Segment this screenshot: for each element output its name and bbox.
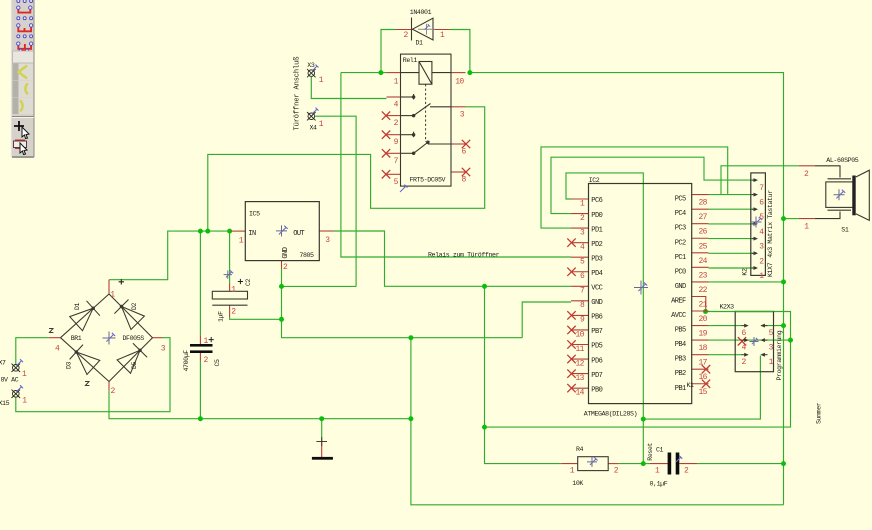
svg-text:15: 15 [699,388,708,397]
label BR1 tilde2 [85,382,89,386]
wire PC2 keypad row 3 [709,238,754,240]
svg-text:PB1: PB1 [675,385,686,393]
K2(3) pin 6 arrow [742,324,749,328]
wire speaker pin 2 feed [721,166,799,195]
pin S1.2 [799,165,815,167]
wire relay pin 3 loop to DC rail [208,107,485,231]
pin BR1.2 [108,382,110,391]
origin D1 [425,24,431,29]
svg-text:23: 23 [699,271,708,280]
node K2(3) pin 3 VCC junction [788,338,793,343]
svg-text:IC2: IC2 [589,177,600,184]
speaker membrane bar [852,176,855,216]
node GND pin 22 junction [781,279,786,284]
node GND branch junction [408,335,413,340]
wire GND vertical to rail [411,338,784,505]
pin R4.2 [608,463,618,465]
svg-text:PC0: PC0 [675,268,686,276]
svg-text:1N4001: 1N4001 [410,9,432,16]
svg-text:PC2: PC2 [675,239,686,247]
pin IC5.OUT [319,230,333,232]
svg-text:FRT5-DC05V: FRT5-DC05V [410,177,446,184]
pin BR1.4 [49,337,61,339]
node IC5 GND junction [279,284,284,289]
svg-text:4700µF: 4700µF [183,350,190,372]
svg-text:Programmierung: Programmierung [776,330,783,380]
node reset RC junction [641,461,646,466]
pin Rel1.8 [451,171,466,173]
origin Rel1 [400,185,407,192]
node relay pin 10 junction [467,70,472,75]
wire IC2 pin 22 GND [709,281,784,283]
origin IC5 [276,225,288,236]
no-connect relay pin 2 [382,111,390,119]
capacitor C2 [212,291,247,305]
svg-text:20: 20 [699,315,708,324]
svg-text:D1: D1 [74,302,81,310]
svg-text:12: 12 [576,359,585,368]
svg-text:10K: 10K [572,480,583,487]
pin S1.1 [799,218,815,220]
svg-text:11: 11 [576,345,585,354]
no-connect IC2 pin 15 [702,380,710,388]
pin IC2.17 [692,354,709,356]
node C2 minus junction [279,317,284,322]
origin K2 keypad [751,217,763,228]
svg-text:BR1: BR1 [71,335,82,342]
relay coil dashed link [425,84,427,142]
svg-text:4x3 Matrix Tastatur: 4x3 Matrix Tastatur [767,190,774,258]
wire PD1 to keypad pin 6 [541,147,728,228]
pin Rel1.1 [387,72,401,74]
node K2(3) pin 5 junction [781,323,786,328]
K2(3) pin 1 arrow [760,353,767,357]
svg-text:AREF: AREF [671,297,686,305]
pin D1.2 [396,29,413,31]
svg-text:K2: K2 [742,268,749,276]
node relay pin 1 junction [378,70,383,75]
diode D1 [412,18,434,41]
svg-text:Türöffner Anschluß: Türöffner Anschluß [294,57,302,131]
svg-text:17: 17 [699,359,708,368]
keypad K2 pin 3 arrow [752,237,758,241]
svg-text:PB5: PB5 [675,327,686,335]
pin IC2.24 [692,252,709,254]
wire relay pin 1 feed [341,72,387,74]
svg-text:C2: C2 [245,278,252,286]
pin Rel1.4 [387,96,401,98]
wire IC5 IN rail to bridge plus [109,231,231,280]
wire C2 branch top [229,231,231,283]
svg-text:X3: X3 [307,62,315,69]
wire C5 branch bottom [199,361,201,419]
pin IC2.19 [692,325,709,327]
svg-text:18: 18 [699,344,708,353]
K2(3) pin 3 arrow [760,338,767,342]
svg-text:7805: 7805 [299,252,314,259]
svg-text:Relais zum Türöffner: Relais zum Türöffner [428,251,500,258]
relay contact 1 [401,94,452,117]
svg-text:21: 21 [699,300,708,309]
svg-text:PD7: PD7 [591,372,602,380]
pin IC2.4 [571,242,589,244]
svg-text:0,1µF: 0,1µF [650,480,668,487]
no-connect IC2 pin 10 [567,326,575,334]
svg-text:X4: X4 [310,125,318,132]
wire PC3 keypad row 4 [709,223,754,225]
svg-text:PB3: PB3 [675,356,686,364]
svg-text:PD4: PD4 [591,270,602,278]
pin R4.1 [561,463,577,465]
svg-text:ATMEGA8(DIL28S): ATMEGA8(DIL28S) [584,411,637,418]
svg-text:13: 13 [576,374,585,383]
toolbar wire-bend icon 1 (partial) [17,0,33,13]
svg-text:PD2: PD2 [591,241,602,249]
node DC rail junction [205,229,210,234]
svg-text:PD0: PD0 [591,212,602,220]
C2 plus mark [238,279,243,284]
node GND rail corner junction [408,416,413,421]
pin IC2.23 [692,266,709,268]
no-connect relay pin 7 [382,149,390,157]
wire K2(3) pin 5 to GND [761,325,784,327]
wire X3 to relay pin 4 [311,77,386,99]
K2(3) pin 5 arrow [760,324,767,328]
wire ground symbol stem [321,419,323,439]
node VCC junction at IC2 pin 7 [482,284,487,289]
pin IC2.7 [571,285,589,287]
pin IC2.12 [571,358,589,360]
toolbar arc icon 3 [13,98,34,115]
svg-text:25: 25 [699,242,708,251]
programming connector K2(3) box [735,312,773,372]
no-connect IC2 pin 11 [567,340,575,348]
wire PC5 keypad row 6 [709,194,754,196]
K2(3) pin 4 arrow [742,338,749,342]
no-connect IC2 pin 9 [567,311,575,319]
no-connect IC2 pin 13 [567,369,575,377]
pin IC2.10 [571,329,589,331]
svg-text:GND: GND [675,283,686,291]
pin Rel1.5 [387,173,401,175]
pin Rel1.3 [451,106,466,108]
svg-text:D1: D1 [416,40,424,47]
wire PC4 keypad row 5 [709,208,754,210]
no-connect IC2 pin 16 [702,365,710,373]
svg-text:IN: IN [248,230,256,238]
pin IC5.GND [281,261,283,269]
svg-text:PC5: PC5 [675,196,686,204]
wire PC0 keypad row 1 [709,267,754,269]
pin IC2 AREF bend [692,297,706,312]
no-connect K2(3) pin 4 [738,337,746,345]
wire C5 branch top [199,231,201,335]
node VCC right-branch junction [482,425,487,430]
wire GND up to IC2 pin 8 [522,302,571,338]
keypad K2 pin 5 arrow [752,207,758,211]
no-connect IC2 pin 12 [567,355,575,363]
no-connect IC2 pin 4 [567,238,575,246]
svg-text:Reset: Reset [647,442,654,460]
svg-text:K2X3: K2X3 [720,304,735,311]
wire PD0 to keypad pin 7 [551,157,753,213]
pin Rel1.10 [451,72,466,74]
svg-text:Summer: Summer [815,402,822,424]
svg-text:AVCC: AVCC [671,312,686,320]
pin D1.1 [433,29,451,31]
label BR1 plus [119,279,124,284]
pin Rel1.7 [387,152,401,154]
wire C2 bottom link [230,317,282,319]
svg-text:D3: D3 [66,361,73,369]
ground symbol [312,457,333,460]
pin IC2.3 [571,227,589,229]
resistor R4 [578,457,609,471]
wire R4 to reset node [619,463,651,465]
pin IC2.2 [571,213,589,215]
pin IC2.16 [692,368,709,370]
svg-text:24: 24 [699,257,708,266]
svg-text:X7: X7 [0,359,6,366]
pin IC2.22 [692,281,709,283]
node reset branch junction [641,417,646,422]
svg-text:PD3: PD3 [591,255,602,263]
wire PB5 to K2(3) pin 6 [709,325,743,327]
node ground symbol junction [319,416,324,421]
origin C1 [676,456,682,462]
svg-text:Rel1: Rel1 [403,57,418,64]
K2(3) pin 2 arrow [742,353,749,357]
origin K2(3) [750,337,759,346]
pin C1.2 [679,463,697,465]
svg-text:10: 10 [455,77,464,86]
bridge rectifier BR1 [61,294,153,382]
voltage regulator IC5 box [245,202,319,261]
svg-text:PC4: PC4 [675,210,686,218]
svg-text:26: 26 [699,228,708,237]
pin BR1.1 [108,280,110,294]
capacitor C5 [190,344,213,353]
svg-text:PD5: PD5 [591,343,602,351]
svg-text:PD1: PD1 [591,226,602,234]
toolbar sunken slot [13,51,34,63]
svg-text:C1: C1 [656,446,664,453]
svg-text:8V AC: 8V AC [1,377,19,384]
svg-text:PB7: PB7 [591,328,602,336]
relay contact 2 [401,132,452,155]
no-connect IC2 pin 6 [567,268,575,276]
svg-text:27: 27 [699,213,708,222]
svg-text:16: 16 [699,373,708,382]
connector X15 [12,390,21,398]
svg-text:OUT: OUT [293,230,304,238]
pin C5.2 [199,352,201,361]
svg-text:PD6: PD6 [591,357,602,365]
pin IC2.11 [571,344,589,346]
svg-text:PC6: PC6 [591,197,602,205]
node AREF-AVCC junction [703,309,708,314]
svg-text:PB6: PB6 [591,314,602,322]
wire PB3 to K2(3) pin 2 [709,354,743,356]
svg-text:IC5: IC5 [249,211,260,218]
toolbar cursor icon [14,121,29,139]
label BR1 tilde4 [49,329,53,333]
origin X7 [16,359,23,366]
origin IC2 [634,281,648,295]
toolbar separator [12,117,34,118]
toolbar group-select icon [14,140,28,155]
svg-text:X15: X15 [0,400,10,407]
toolbar panel [11,0,35,158]
pin Rel1.6 [451,143,466,145]
C5 plus mark [209,337,214,342]
wire IC5 GND down [281,269,283,287]
node C1 GND junction [781,461,786,466]
svg-text:PB4: PB4 [675,341,686,349]
wire C1 to GND [697,463,784,465]
pin IC2.26 [692,223,709,225]
toolbar wire-bend icon 3 [17,35,33,52]
keypad K2 pin 4 arrow [752,222,758,226]
origin X15 [16,385,23,392]
wire X4 to ground seg [315,116,356,286]
pin IC2.27 [692,208,709,210]
svg-text:GND: GND [591,299,602,307]
svg-text:14: 14 [576,388,585,397]
svg-text:VCC: VCC [591,285,602,293]
svg-text:AL-60SP05: AL-60SP05 [826,157,858,164]
wire PD3 Relais net riser [341,73,571,257]
svg-text:PB0: PB0 [591,386,602,394]
svg-text:K1X7: K1X7 [767,262,774,277]
wire X7 to bridge pin 4 [16,338,49,365]
pin IC5.IN [231,230,245,232]
node speaker pin 1 junction [781,216,786,221]
pin C5.1 [199,335,201,345]
pin IC2.13 [571,373,589,375]
no-connect relay pin 8 [462,168,470,176]
wire X15 to bridge pin 3 [16,338,170,412]
svg-text:K1: K1 [687,382,695,389]
pin IC2.20 [692,310,709,312]
pin BR1.3 [153,337,163,339]
svg-text:1µF: 1µF [218,311,225,322]
svg-text:19: 19 [699,330,708,339]
origin X4 [312,108,319,115]
svg-text:S1: S1 [841,226,849,233]
wire relay pin 10 to GND rail [470,73,784,505]
wire D1 cathode link [451,30,470,73]
microcontroller IC2 box [589,184,692,404]
pin Rel1.9 [387,134,401,136]
wire K2(3) pin 1 reset link [643,356,760,420]
origin S1 [834,189,846,200]
pin GND symbol [321,438,323,457]
relay Rel1 body [401,54,452,186]
svg-text:28: 28 [699,199,708,208]
svg-text:22: 22 [699,286,708,295]
capacitor C1 [668,453,680,475]
pin IC2.9 [571,314,589,316]
pin IC2.1 [571,198,589,200]
svg-text:PC1: PC1 [675,254,686,262]
svg-text:C5: C5 [214,359,221,367]
svg-text:GND: GND [282,247,290,258]
speaker S1 [815,166,870,221]
connector X7 [12,364,21,372]
svg-text:10: 10 [576,330,585,339]
wire PB4 to K2(3) pin 3 [709,339,791,341]
svg-text:R4: R4 [576,446,584,453]
ground origin cross [316,437,327,446]
svg-text:D2: D2 [131,302,138,310]
keypad connector K2 box [751,173,766,276]
origin C2 [224,270,234,279]
node IC5 IN junction [227,229,232,234]
pin IC2.18 [692,339,709,341]
wire VCC right branch [485,312,791,428]
toolbar wire-bend icon 2 [17,17,33,32]
keypad K2 pin 2 arrow [752,251,758,255]
wire PC6 reset net [566,173,643,464]
pin IC2.8 [571,300,589,302]
pin IC2.6 [571,271,589,273]
wire IC5 OUT to VCC [334,231,572,286]
pin IC2.5 [571,256,589,258]
wire bridge minus to rail [109,390,411,419]
wire D1 anode link [381,30,396,73]
svg-text:PC3: PC3 [675,225,686,233]
wire PC1 keypad row 2 [709,252,754,254]
origin R4 [587,457,598,467]
svg-text:PB2: PB2 [675,370,686,378]
pin IC2.28 [692,194,709,196]
no-connect relay pin 5 [382,170,390,178]
pin C1.1 [650,463,668,465]
toolbar arc icon 1 [13,64,34,81]
keypad K2 pin 1 arrow [752,266,758,270]
pin C2.1 [229,284,231,292]
node C5 top junction [198,229,203,234]
origin X3 [312,65,319,72]
svg-text:D5: D5 [131,361,138,369]
keypad K2 pin 6 arrow [752,193,758,197]
connector X3 [307,69,316,77]
connector X4 [307,112,316,120]
origin BR1 [103,332,116,345]
no-connect IC2 pin 14 [567,384,575,392]
wire speaker pin 1 to GND [784,218,799,220]
wire VCC overlay on K2(3) top edge [735,311,773,313]
svg-text:DF005S: DF005S [123,335,145,342]
pin IC2.15 [692,383,709,385]
no-connect relay pin 9 [382,131,390,139]
wire GND to X4 seg [282,285,357,287]
keypad K2 pin 7 arrow [752,178,758,182]
pin IC2.14 [571,387,589,389]
toolbar arc icon 2 [13,81,34,98]
wire VCC down to R4 [485,286,562,463]
node C5 bottom junction [198,416,203,421]
no-connect relay pin 6 [462,140,470,148]
wire GND drop [282,286,523,337]
pin IC2.25 [692,237,709,239]
pin C2.2 [229,305,231,317]
pin Rel1.2 [387,115,401,117]
